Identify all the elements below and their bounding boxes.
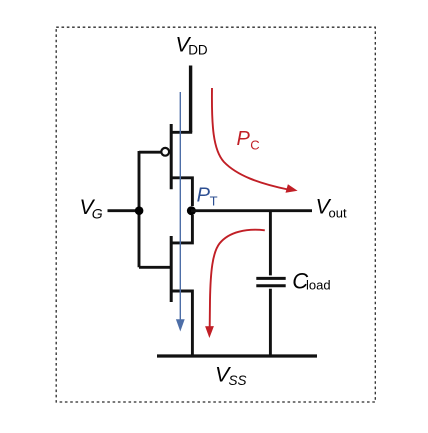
dashed boundary frame <box>56 27 375 402</box>
wire gate vertical (PMOS gate to NMOS gate) <box>138 151 141 267</box>
ground rail VSS <box>157 354 317 357</box>
power label VDD <box>176 34 208 58</box>
svg-text:SS: SS <box>229 373 247 388</box>
transistor M2 (NMOS) <box>170 215 192 356</box>
svg-text:C: C <box>250 138 259 153</box>
svg-text:out: out <box>329 206 347 221</box>
red arrow PC (charging current) <box>212 88 298 193</box>
wire PMOS gate <box>139 151 162 154</box>
wire NMOS gate <box>139 266 170 269</box>
svg-text:load: load <box>306 278 331 293</box>
red arrow PT (discharge current) <box>205 230 265 338</box>
svg-text:T: T <box>210 193 218 208</box>
svg-text:G: G <box>92 205 103 221</box>
wire capacitor bottom to VSS <box>269 289 272 356</box>
node label Vout <box>316 196 347 221</box>
wire VG input <box>108 209 140 212</box>
wire output to Vout <box>191 209 312 212</box>
svg-text:P: P <box>237 128 251 150</box>
node PT label <box>197 185 218 209</box>
ground label VSS <box>215 363 247 389</box>
blue current arrow PT path <box>176 92 185 332</box>
transistor M1 (PMOS) <box>161 124 192 206</box>
junction output node <box>187 206 196 215</box>
wire output to capacitor top <box>269 211 272 276</box>
capacitor Cload <box>256 278 285 285</box>
wire VDD to PMOS source <box>189 66 192 133</box>
red label PC <box>237 128 260 152</box>
junction gate node <box>135 206 144 215</box>
value label Cload <box>292 269 330 294</box>
svg-text:P: P <box>197 185 211 207</box>
input label VG <box>80 196 103 221</box>
svg-text:DD: DD <box>188 42 208 57</box>
